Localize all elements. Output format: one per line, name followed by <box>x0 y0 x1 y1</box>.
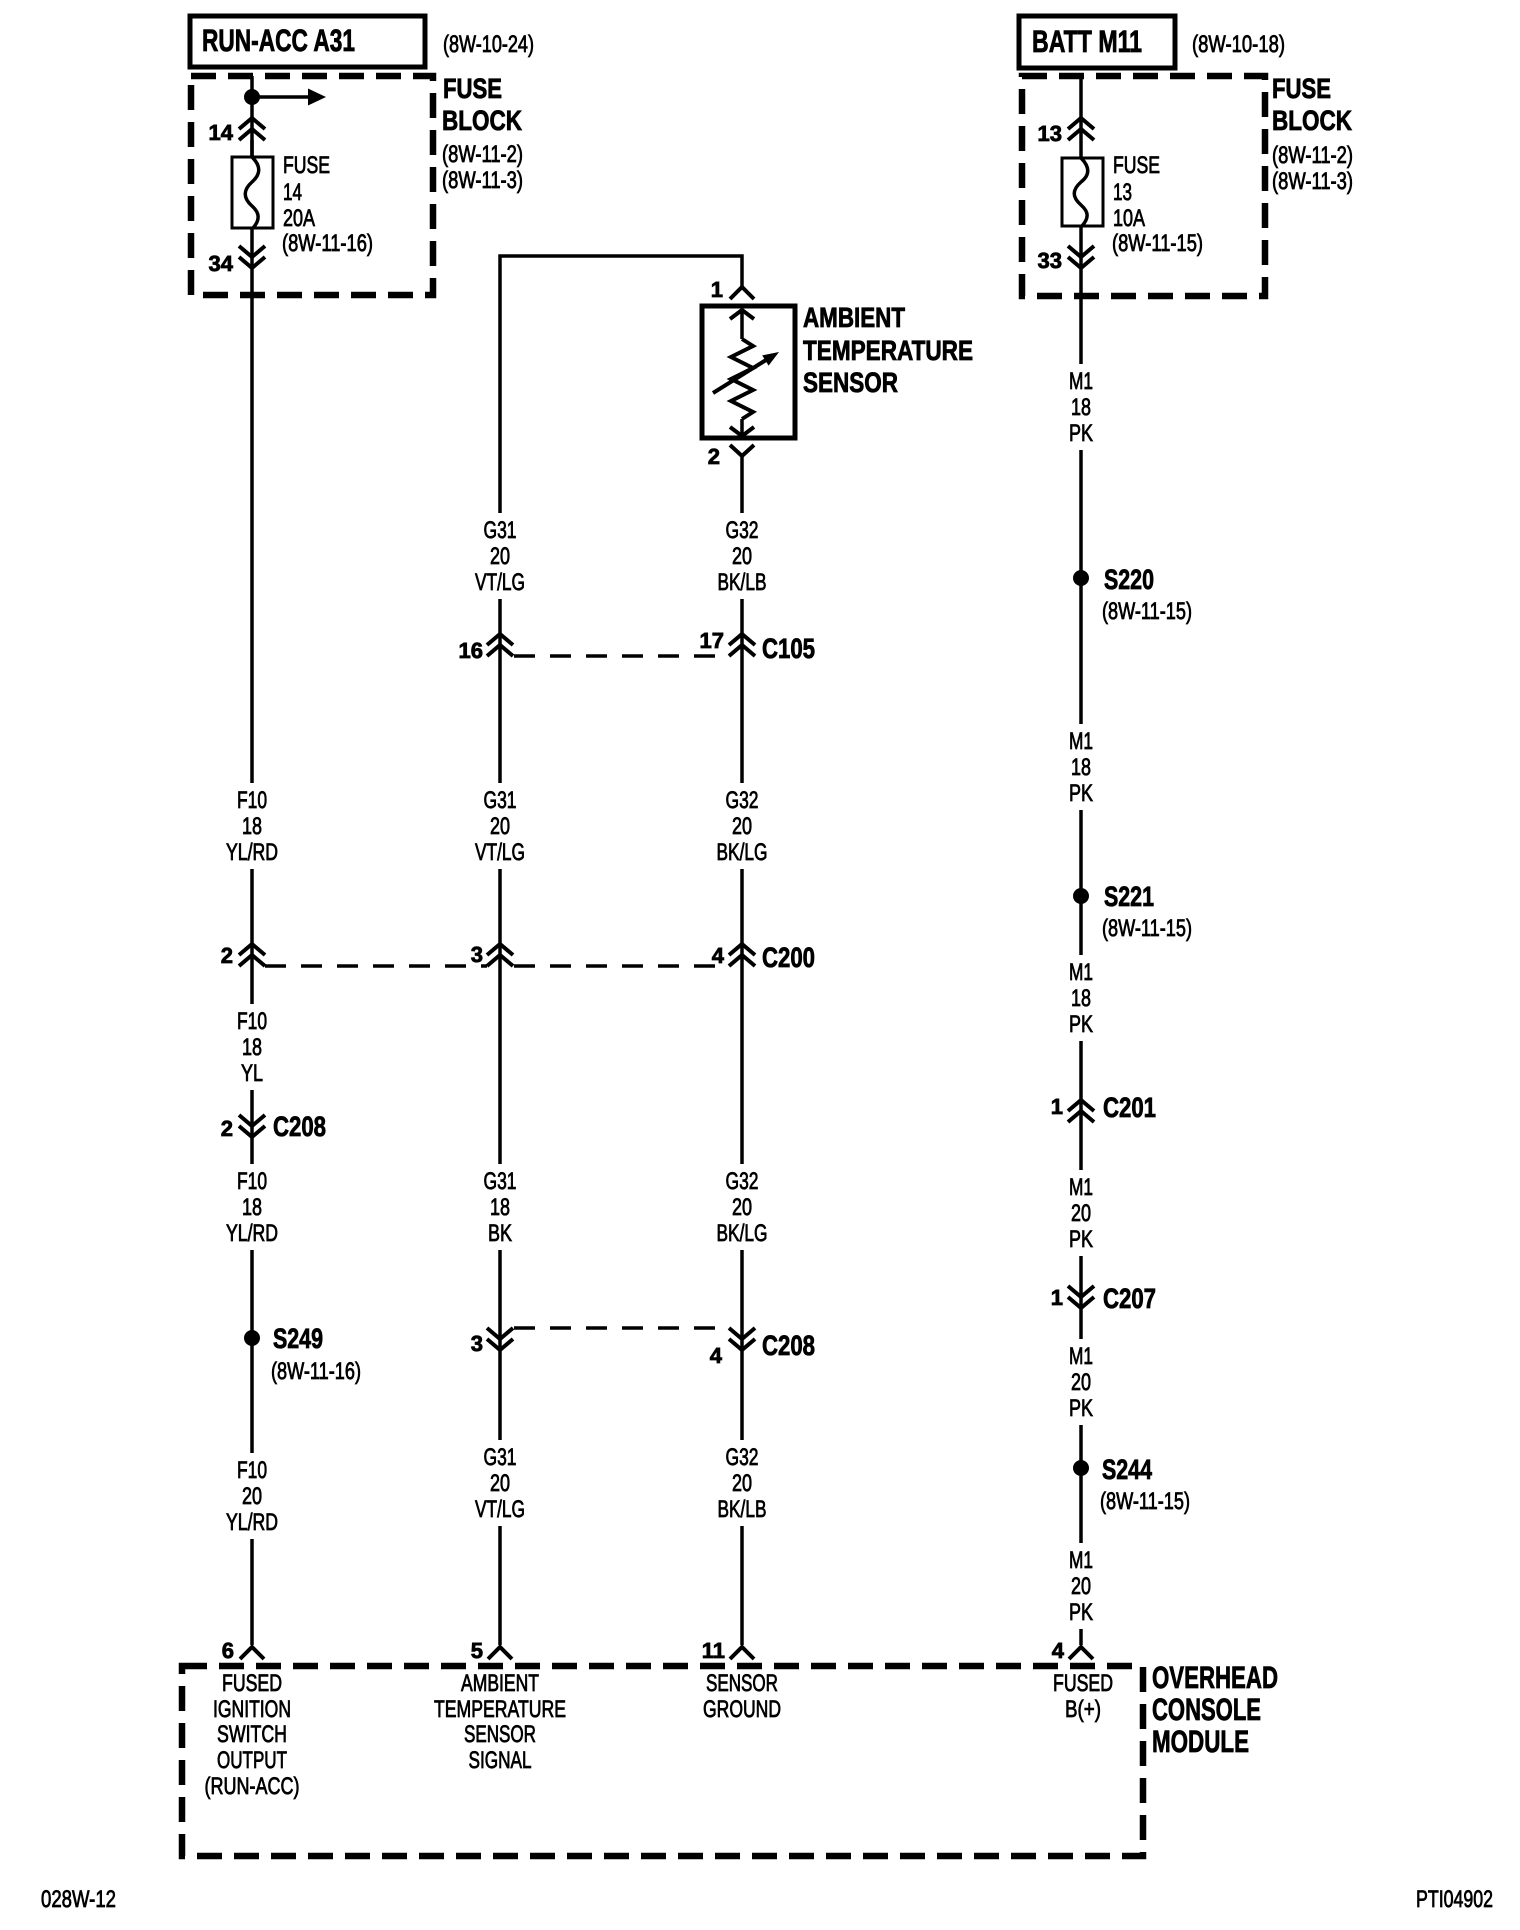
pin 1 terminal <box>730 287 754 299</box>
wire through C201 <box>1079 1041 1083 1170</box>
wire through C208 pin 3 <box>498 1250 502 1440</box>
label FUSE 13 10A (8W-11-15) <box>1112 152 1203 257</box>
svg-text:18: 18 <box>242 1194 262 1221</box>
pin 11 terminal <box>730 1647 754 1659</box>
wire through C207 <box>1079 1256 1083 1339</box>
svg-text:G31: G31 <box>484 787 517 814</box>
svg-text:(8W-11-15): (8W-11-15) <box>1102 598 1192 625</box>
svg-text:BATT M11: BATT M11 <box>1032 24 1142 59</box>
svg-text:PK: PK <box>1069 780 1093 807</box>
label M1 20 PK (6) <box>1069 1547 1093 1626</box>
svg-text:18: 18 <box>242 1034 262 1061</box>
svg-text:1: 1 <box>1051 1285 1063 1310</box>
svg-text:(8W-11-15): (8W-11-15) <box>1100 1488 1190 1515</box>
svg-text:PTI04902: PTI04902 <box>1416 1886 1493 1913</box>
wire stem into right fuse block <box>1079 76 1083 158</box>
label F10 18 YL/RD <box>226 1168 278 1247</box>
svg-text:4: 4 <box>1052 1638 1065 1663</box>
svg-text:(RUN-ACC): (RUN-ACC) <box>205 1773 300 1800</box>
label FUSE BLOCK (8W-11-2)(8W-11-3) right <box>1272 73 1353 195</box>
label G31 20 VT/LG (top) <box>475 517 525 596</box>
svg-text:G31: G31 <box>484 517 517 544</box>
svg-text:20: 20 <box>490 543 510 570</box>
svg-text:(8W-10-24): (8W-10-24) <box>443 31 534 58</box>
splice S249 dot <box>244 1330 260 1346</box>
svg-text:G32: G32 <box>726 1168 759 1195</box>
sensor variable arrow <box>713 352 779 393</box>
wire through S244 <box>1079 1425 1083 1543</box>
svg-text:B(+): B(+) <box>1065 1696 1101 1723</box>
wire through C105 pin 16 <box>498 599 502 783</box>
svg-text:20: 20 <box>732 543 752 570</box>
svg-text:2: 2 <box>221 943 233 968</box>
svg-text:G32: G32 <box>726 787 759 814</box>
label M1 20 PK (5) <box>1069 1343 1093 1422</box>
svg-text:FUSED: FUSED <box>1053 1670 1113 1697</box>
svg-text:TEMPERATURE: TEMPERATURE <box>803 335 973 366</box>
svg-text:BK/LG: BK/LG <box>717 839 768 866</box>
connector C200 pin 2 chevron <box>239 944 265 966</box>
connector C208 pin 4 chevron <box>729 1328 755 1350</box>
svg-text:IGNITION: IGNITION <box>213 1696 291 1723</box>
svg-text:C200: C200 <box>762 942 815 973</box>
wire F10 fuse block to C200 <box>250 295 254 783</box>
svg-text:(8W-11-3): (8W-11-3) <box>442 167 523 194</box>
svg-text:PK: PK <box>1069 420 1093 447</box>
svg-text:PK: PK <box>1069 1011 1093 1038</box>
pin 4 terminal <box>1069 1647 1093 1659</box>
wire through C208 pin 4 <box>740 1250 744 1440</box>
svg-text:4: 4 <box>710 1343 723 1368</box>
svg-text:MODULE: MODULE <box>1152 1724 1249 1759</box>
svg-text:PK: PK <box>1069 1599 1093 1626</box>
svg-text:3: 3 <box>471 942 483 967</box>
svg-text:20: 20 <box>732 1470 752 1497</box>
svg-text:11: 11 <box>702 1638 725 1663</box>
svg-text:OUTPUT: OUTPUT <box>217 1747 287 1774</box>
svg-text:C207: C207 <box>1103 1283 1156 1314</box>
label F10 20 YL/RD <box>226 1457 278 1536</box>
splice S244 dot <box>1073 1460 1089 1476</box>
node BATT M11 label box <box>1019 16 1175 68</box>
svg-text:YL: YL <box>241 1060 263 1087</box>
module dashed box <box>182 1666 1143 1856</box>
svg-text:OVERHEAD: OVERHEAD <box>1152 1660 1278 1695</box>
wire arrow feed to right <box>252 89 326 106</box>
svg-text:C208: C208 <box>762 1330 815 1361</box>
pin 6 terminal <box>240 1647 264 1659</box>
svg-text:FUSE: FUSE <box>1272 73 1331 104</box>
svg-text:13: 13 <box>1113 179 1132 206</box>
ambient temperature sensor box <box>702 306 795 438</box>
svg-text:F10: F10 <box>237 787 267 814</box>
svg-text:M1: M1 <box>1069 1174 1093 1201</box>
svg-text:17: 17 <box>700 628 724 653</box>
node junction dot <box>244 89 260 105</box>
label AMBIENT TEMPERATURE SENSOR <box>803 302 973 398</box>
wire through S220 <box>1079 450 1083 724</box>
svg-text:18: 18 <box>1071 394 1091 421</box>
svg-text:RUN-ACC A31: RUN-ACC A31 <box>202 23 355 58</box>
wire through C105 pin 17 <box>740 599 744 783</box>
label G32 20 BK/LB (bottom) <box>718 1444 767 1523</box>
wire through C200 pin 4 <box>740 869 744 1164</box>
svg-text:20: 20 <box>490 813 510 840</box>
fuse block (right) dashed box <box>1022 76 1265 296</box>
svg-text:20: 20 <box>1071 1369 1091 1396</box>
svg-text:AMBIENT: AMBIENT <box>803 302 905 333</box>
wire stem into fuse block <box>250 76 254 157</box>
svg-text:S220: S220 <box>1104 564 1154 595</box>
fuse F14 element squiggle <box>245 157 259 228</box>
svg-text:14: 14 <box>283 179 302 206</box>
label G32 20 BK/LG (low) <box>717 1168 768 1247</box>
connector C200 pin 3 chevron <box>487 944 513 966</box>
svg-text:M1: M1 <box>1069 728 1093 755</box>
wire to C200 pin 2 <box>250 869 254 1004</box>
connector C200 pin 4 chevron <box>729 944 755 966</box>
fuse F13 element squiggle <box>1074 158 1088 226</box>
svg-text:BLOCK: BLOCK <box>1272 105 1352 136</box>
svg-text:YL/RD: YL/RD <box>226 1220 278 1247</box>
label FUSED B(+) <box>1053 1670 1113 1723</box>
svg-text:GROUND: GROUND <box>703 1696 781 1723</box>
wire to module pin 11 <box>740 1526 744 1645</box>
wire to module pin 4 <box>1079 1629 1083 1645</box>
svg-text:FUSE: FUSE <box>283 152 330 179</box>
connector C200 dashed line right <box>514 964 729 968</box>
svg-text:(8W-11-2): (8W-11-2) <box>1272 142 1353 169</box>
svg-text:C201: C201 <box>1103 1092 1156 1123</box>
wire chevron to fuse <box>250 140 254 157</box>
sensor internal wire arrows <box>730 310 754 436</box>
svg-text:F10: F10 <box>237 1008 267 1035</box>
svg-text:SENSOR: SENSOR <box>803 367 898 398</box>
wire to module pin 5 <box>498 1526 502 1645</box>
svg-text:20: 20 <box>1071 1200 1091 1227</box>
svg-text:S249: S249 <box>273 1323 323 1354</box>
svg-text:PK: PK <box>1069 1226 1093 1253</box>
pin 34 connector chevron <box>239 246 265 268</box>
svg-text:BLOCK: BLOCK <box>442 105 522 136</box>
svg-text:34: 34 <box>209 251 234 276</box>
svg-text:14: 14 <box>209 120 234 145</box>
pin 33 connector chevron <box>1068 246 1094 268</box>
splice S249 name <box>271 1323 361 1385</box>
svg-text:G31: G31 <box>484 1444 517 1471</box>
svg-text:VT/LG: VT/LG <box>475 839 525 866</box>
svg-text:VT/LG: VT/LG <box>475 569 525 596</box>
svg-text:M1: M1 <box>1069 959 1093 986</box>
label OVERHEAD CONSOLE MODULE <box>1152 1660 1278 1759</box>
node RUN-ACC A31 label box <box>190 16 425 67</box>
svg-text:C208: C208 <box>273 1111 326 1142</box>
svg-text:PK: PK <box>1069 1395 1093 1422</box>
pin 14 connector chevron <box>239 118 265 140</box>
svg-text:3: 3 <box>471 1331 483 1356</box>
label G31 18 BK <box>484 1168 517 1247</box>
connector C207 chevron <box>1068 1286 1094 1308</box>
svg-text:20: 20 <box>732 813 752 840</box>
svg-text:S221: S221 <box>1104 881 1154 912</box>
svg-text:(8W-11-16): (8W-11-16) <box>282 230 373 257</box>
wire fuse to pin 34 <box>250 228 254 295</box>
svg-text:20A: 20A <box>283 205 315 232</box>
svg-text:FUSED: FUSED <box>222 1670 282 1697</box>
label M1 18 PK (2) <box>1069 728 1093 807</box>
svg-text:18: 18 <box>490 1194 510 1221</box>
svg-text:SENSOR: SENSOR <box>706 1670 778 1697</box>
connector C105 pin 17 chevron <box>729 634 755 656</box>
svg-text:F10: F10 <box>237 1168 267 1195</box>
svg-text:SIGNAL: SIGNAL <box>469 1747 532 1774</box>
svg-text:5: 5 <box>471 1638 483 1663</box>
label M1 18 PK (3) <box>1069 959 1093 1038</box>
wire pin2 down <box>740 456 744 513</box>
svg-text:BK/LB: BK/LB <box>718 569 767 596</box>
wire through S249 <box>250 1250 254 1453</box>
svg-text:20: 20 <box>732 1194 752 1221</box>
svg-text:20: 20 <box>490 1470 510 1497</box>
svg-text:1: 1 <box>711 277 723 302</box>
label SENSOR GROUND <box>703 1670 781 1723</box>
svg-text:BK: BK <box>488 1220 512 1247</box>
svg-text:BK/LB: BK/LB <box>718 1496 767 1523</box>
label FUSED IGNITION SWITCH OUTPUT (RUN-ACC) <box>205 1670 300 1800</box>
svg-text:G32: G32 <box>726 517 759 544</box>
wire fuse block to label M1 <box>1079 296 1083 364</box>
svg-text:SWITCH: SWITCH <box>217 1721 287 1748</box>
label FUSE 14 20A (8W-11-16) <box>282 152 373 257</box>
connector C208 pin 3 chevron <box>487 1328 513 1350</box>
svg-text:18: 18 <box>242 813 262 840</box>
svg-text:M1: M1 <box>1069 368 1093 395</box>
svg-text:AMBIENT: AMBIENT <box>461 1670 539 1697</box>
label M1 18 PK (1) <box>1069 368 1093 447</box>
splice S220 dot <box>1073 570 1089 586</box>
svg-text:18: 18 <box>1071 985 1091 1012</box>
svg-text:CONSOLE: CONSOLE <box>1152 1692 1261 1727</box>
splice S244 name <box>1100 1454 1190 1515</box>
svg-text:FUSE: FUSE <box>443 73 502 104</box>
label AMBIENT TEMPERATURE SENSOR SIGNAL <box>434 1670 566 1774</box>
splice S221 dot <box>1073 888 1089 904</box>
svg-text:M1: M1 <box>1069 1547 1093 1574</box>
connector C200 dashed line left <box>265 964 487 968</box>
wire fuse to pin 33 <box>1079 226 1083 296</box>
svg-text:(8W-10-18): (8W-10-18) <box>1192 31 1285 58</box>
fuse F13 box <box>1062 158 1103 226</box>
svg-text:20: 20 <box>242 1483 262 1510</box>
label FUSE BLOCK (8W-11-2)(8W-11-3) left <box>442 73 523 194</box>
label F10 18 YL/RD <box>226 787 278 866</box>
svg-text:028W-12: 028W-12 <box>41 1886 116 1913</box>
svg-text:20: 20 <box>1071 1573 1091 1600</box>
svg-text:10A: 10A <box>1113 205 1145 232</box>
svg-text:M1: M1 <box>1069 1343 1093 1370</box>
label G31 20 VT/LG (mid) <box>475 787 525 866</box>
svg-text:33: 33 <box>1038 248 1062 273</box>
svg-text:2: 2 <box>221 1116 233 1141</box>
svg-text:18: 18 <box>1071 754 1091 781</box>
svg-text:C105: C105 <box>762 633 815 664</box>
svg-text:(8W-11-15): (8W-11-15) <box>1112 230 1203 257</box>
wire to S221 <box>1079 810 1083 955</box>
svg-text:F10: F10 <box>237 1457 267 1484</box>
label G31 20 VT/LG (bottom) <box>475 1444 525 1523</box>
svg-text:(8W-11-16): (8W-11-16) <box>271 1358 361 1385</box>
svg-text:1: 1 <box>1051 1094 1063 1119</box>
svg-text:FUSE: FUSE <box>1113 152 1160 179</box>
sensor thermistor zigzag <box>731 339 753 419</box>
wire top horizontal G31 feed to sensor <box>500 256 742 513</box>
pin 5 terminal <box>488 1647 512 1659</box>
svg-text:S244: S244 <box>1102 1454 1152 1485</box>
svg-text:13: 13 <box>1038 121 1062 146</box>
svg-text:TEMPERATURE: TEMPERATURE <box>434 1696 566 1723</box>
splice S221 name <box>1102 881 1192 942</box>
label F10 18 YL <box>237 1008 267 1087</box>
svg-text:(8W-11-3): (8W-11-3) <box>1272 168 1353 195</box>
wire to module pin 6 <box>250 1539 254 1645</box>
connector C201 chevron <box>1068 1100 1094 1122</box>
splice S220 name <box>1102 564 1192 625</box>
label G32 20 BK/LG (mid) <box>717 787 768 866</box>
connector C208 pin 2 chevron <box>239 1115 265 1137</box>
fuse block (left) dashed box <box>191 76 433 295</box>
svg-text:(8W-11-15): (8W-11-15) <box>1102 915 1192 942</box>
svg-text:16: 16 <box>459 638 483 663</box>
svg-text:VT/LG: VT/LG <box>475 1496 525 1523</box>
svg-text:G31: G31 <box>484 1168 517 1195</box>
pin 13 connector chevron <box>1068 118 1094 140</box>
wire through C200 pin 3 <box>498 869 502 1164</box>
svg-text:YL/RD: YL/RD <box>226 1509 278 1536</box>
svg-text:G32: G32 <box>726 1444 759 1471</box>
svg-text:(8W-11-2): (8W-11-2) <box>442 141 523 168</box>
svg-text:6: 6 <box>222 1638 234 1663</box>
label G32 20 BK/LB (top) <box>718 517 767 596</box>
wire through C208 <box>250 1090 254 1164</box>
svg-text:2: 2 <box>708 444 720 469</box>
connector C208 dashed line <box>514 1326 729 1330</box>
connector C105 pin 16 chevron <box>487 634 513 656</box>
svg-text:SENSOR: SENSOR <box>464 1721 536 1748</box>
svg-text:YL/RD: YL/RD <box>226 839 278 866</box>
connector C105 dashed line <box>514 654 729 658</box>
fuse F14 box <box>232 157 273 228</box>
svg-text:BK/LG: BK/LG <box>717 1220 768 1247</box>
label M1 20 PK (4) <box>1069 1174 1093 1253</box>
pin 2 terminal <box>730 445 754 456</box>
